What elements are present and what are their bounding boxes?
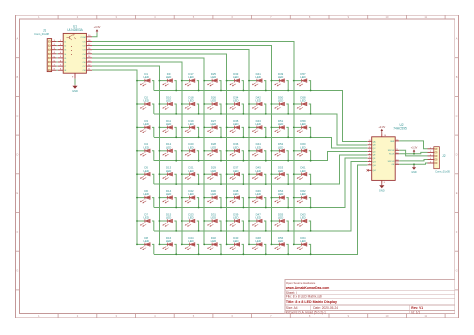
LED D57 [293,72,312,91]
svg-text:F: F [456,230,458,234]
svg-text:LED: LED [166,145,171,149]
svg-text:+3.3V: +3.3V [94,25,101,29]
svg-text:LED: LED [278,192,283,196]
LED D20 [181,142,200,161]
svg-text:13: 13 [396,163,398,165]
U2 GND pin 8 [382,180,385,184]
power +3.3V (U1) [94,25,101,32]
svg-text:LED: LED [188,75,193,79]
svg-text:SRCLR: SRCLR [388,161,395,163]
wire U2 SRCLR to J2 pin4 [399,160,427,161]
LED D22 [181,189,200,208]
svg-text:LED: LED [278,122,283,126]
IC U2 74HC595 body [372,137,396,181]
J2 pins 1-5 [428,147,438,163]
svg-text:LED: LED [255,99,260,103]
svg-text:LED: LED [233,239,238,243]
power +3.3V (RCLK pull) [411,146,418,154]
LED D49 [271,72,290,91]
svg-text:www.ArnabKumarDas.com: www.ArnabKumarDas.com [285,286,329,290]
svg-text:LED: LED [255,145,260,149]
wire U2 RCLK to J2 pin2 [399,152,427,153]
title block text [285,281,423,314]
svg-text:LED: LED [300,145,305,149]
LED D28 [203,142,222,161]
svg-text:4: 4 [369,153,370,155]
wire U2 SER to J2 pin1 [399,141,427,149]
LED D3 [136,119,154,138]
svg-text:LED: LED [278,216,283,220]
svg-text:+3.3V: +3.3V [411,146,418,149]
svg-text:LED: LED [188,192,193,196]
svg-text:J1: J1 [43,28,47,32]
svg-text:Rev: V1: Rev: V1 [411,306,423,310]
LED D56 [271,236,290,255]
svg-text:LED: LED [255,122,260,126]
svg-text:E: E [17,191,19,195]
U2 pin 9 QH' (no connect) [367,169,377,172]
LED D53 [271,166,290,185]
svg-text:GND: GND [72,89,78,93]
svg-text:3: 3 [430,154,431,156]
LED D2 [136,95,154,114]
svg-text:1: 1 [369,143,370,145]
U2 control pins SER/SRCLK/RCLK/SRCLR/OE [388,139,400,166]
svg-text:LED: LED [211,75,216,79]
LED D31 [203,212,222,231]
svg-text:LED: LED [255,169,260,173]
svg-text:LED: LED [166,75,171,79]
svg-text:LED: LED [188,145,193,149]
LED D1 [136,72,154,91]
LED D8 [136,236,154,255]
LED D37 [226,166,245,185]
svg-text:7: 7 [369,163,370,165]
svg-text:LED: LED [143,216,148,220]
LED D51 [271,119,290,138]
svg-text:LED: LED [300,239,305,243]
svg-text:LED: LED [300,192,305,196]
LED D14 [159,189,178,208]
LED D11 [159,119,178,138]
svg-text:LED: LED [188,169,193,173]
svg-text:Conn_01x05: Conn_01x05 [435,170,450,174]
svg-text:LED: LED [211,169,216,173]
svg-text:G: G [456,269,458,273]
LED D39 [226,212,245,231]
LED D34 [226,95,245,114]
svg-text:LED: LED [278,169,283,173]
svg-text:LED: LED [255,239,260,243]
svg-text:LED: LED [300,99,305,103]
U2 VCC pin 16 to +3.3V [382,133,386,137]
connector J1 Conn_01x08 body [47,39,51,72]
svg-text:1: 1 [430,147,431,149]
LED D59 [293,119,312,138]
LED D62 [293,189,312,208]
svg-text:LED: LED [211,99,216,103]
LED D27 [203,119,222,138]
svg-text:LED: LED [211,145,216,149]
svg-text:12: 12 [396,152,398,154]
LED D18 [181,95,200,114]
wire U1 COM to +3.3V [92,33,97,37]
svg-text:F: F [17,230,19,234]
svg-text:LED: LED [233,192,238,196]
svg-text:+3.3V: +3.3V [378,125,385,129]
LED D33 [226,72,245,91]
title block frame [285,279,455,313]
ground (U1) [72,79,78,93]
svg-text:LED: LED [300,122,305,126]
svg-text:J2: J2 [442,154,446,158]
svg-text:LED: LED [300,216,305,220]
svg-text:B: B [17,75,19,79]
svg-text:LED: LED [233,169,238,173]
svg-text:14: 14 [396,139,398,141]
svg-text:LED: LED [278,145,283,149]
svg-text:5: 5 [430,162,431,164]
LED D6 [136,189,154,208]
svg-text:15: 15 [369,140,371,142]
LED D17 [181,72,200,91]
svg-text:KiCad E.D.A. kicad (5.0.2)-1: KiCad E.D.A. kicad (5.0.2)-1 [286,310,326,314]
svg-text:Id: 1/1: Id: 1/1 [411,310,420,314]
svg-text:LED: LED [211,122,216,126]
svg-text:File: 8 x 8 LED Matrix.sch: File: 8 x 8 LED Matrix.sch [286,295,323,299]
LED D7 [136,212,154,231]
svg-text:LED: LED [143,122,148,126]
svg-text:LED: LED [300,169,305,173]
LED D19 [181,119,200,138]
svg-text:4: 4 [430,158,431,160]
svg-text:Date: 2020-05-24: Date: 2020-05-24 [313,306,338,310]
LED D23 [181,212,200,231]
J1 pins 1-8 [48,40,58,71]
svg-text:LED: LED [188,216,193,220]
svg-text:LED: LED [278,75,283,79]
LED D29 [203,166,222,185]
svg-text:B: B [456,75,458,79]
LED D42 [248,95,267,114]
svg-text:LED: LED [233,75,238,79]
svg-text:3: 3 [369,150,370,152]
svg-text:COM: COM [80,37,85,39]
U1 GND pin 9 [72,73,75,79]
svg-text:LED: LED [255,192,260,196]
svg-text:C: C [456,114,458,118]
svg-text:ULN2803A: ULN2803A [67,28,83,32]
LED D40 [226,236,245,255]
svg-text:LED: LED [233,122,238,126]
LED D4 [136,142,154,161]
LED D26 [203,95,222,114]
LED D21 [181,166,200,185]
svg-text:LED: LED [143,99,148,103]
svg-text:8: 8 [384,182,385,184]
svg-text:LED: LED [166,169,171,173]
LED D12 [159,142,178,161]
LED D48 [248,236,267,255]
svg-text:SRCLK: SRCLK [388,150,395,152]
svg-text:2: 2 [369,147,370,149]
svg-text:LED: LED [188,99,193,103]
svg-text:5: 5 [369,157,370,159]
svg-text:SER: SER [390,141,395,143]
svg-text:LED: LED [211,192,216,196]
wire U2 SRCLK to J2 pin3 [399,150,427,156]
svg-text:C: C [16,114,18,118]
svg-text:LED: LED [166,239,171,243]
svg-text:11: 11 [396,149,398,151]
svg-text:Size: A4: Size: A4 [286,306,298,310]
svg-text:LED: LED [278,99,283,103]
svg-text:A: A [456,36,458,40]
svg-text:LED: LED [188,239,193,243]
svg-text:LED: LED [143,169,148,173]
svg-text:LED: LED [143,145,148,149]
svg-text:74HC595: 74HC595 [393,127,407,131]
svg-text:E: E [456,191,458,195]
svg-text:D: D [456,153,458,157]
svg-text:RCLK: RCLK [389,154,395,156]
svg-text:Conn_01x08: Conn_01x08 [34,32,49,36]
svg-text:LED: LED [233,145,238,149]
U1 COM pin 10 [80,35,92,39]
ground (U2 bottom) [379,184,385,193]
svg-text:LED: LED [166,216,171,220]
svg-text:LED: LED [233,216,238,220]
LED D47 [248,212,267,231]
svg-text:GND: GND [379,188,385,192]
svg-text:Open Source Hardware: Open Source Hardware [286,281,316,285]
svg-text:LED: LED [278,239,283,243]
wires U1 outputs feeding matrix columns [92,42,294,245]
LED D58 [293,95,312,114]
LED D35 [226,119,245,138]
svg-text:LED: LED [143,75,148,79]
LED D55 [271,212,290,231]
svg-text:2: 2 [430,151,431,153]
U1 input/output pins with numbers [58,40,92,72]
LED D63 [293,212,312,231]
LED D15 [159,212,178,231]
LED D10 [159,95,178,114]
svg-text:Title: 8 x 8 LED Matrix Displa: Title: 8 x 8 LED Matrix Display [286,300,337,304]
wire U2 OE to J2 pin5 [399,163,427,164]
LED D5 [136,166,154,185]
LED D41 [248,72,267,91]
svg-text:9: 9 [72,77,74,79]
svg-text:6: 6 [369,160,370,162]
IC U1 ULN2803A body [63,33,86,73]
LED D36 [226,142,245,161]
LED D45 [248,166,267,185]
LED D44 [248,142,267,161]
LED D32 [203,236,222,255]
LED D50 [271,95,290,114]
svg-text:LED: LED [143,239,148,243]
svg-text:LED: LED [255,75,260,79]
LED D30 [203,189,222,208]
svg-text:G: G [16,269,18,273]
svg-text:10: 10 [396,159,398,161]
LED D16 [159,236,178,255]
svg-text:16: 16 [384,135,386,137]
svg-text:LED: LED [211,216,216,220]
ground (OE pulldown) [411,163,417,174]
svg-text:LED: LED [166,192,171,196]
LED D24 [181,236,200,255]
svg-text:LED: LED [143,192,148,196]
svg-text:LED: LED [233,99,238,103]
LED D13 [159,166,178,185]
LED D54 [271,189,290,208]
svg-text:LED: LED [300,75,305,79]
LED D60 [293,142,312,161]
LED D25 [203,72,222,91]
svg-text:LED: LED [166,122,171,126]
svg-text:LED: LED [255,216,260,220]
power +3.3V (U2 top) [378,125,385,134]
LED D46 [248,189,267,208]
svg-text:QG: QG [373,161,377,163]
LED D38 [226,189,245,208]
connector J2 Conn_01x05 body [434,147,440,169]
svg-text:LED: LED [166,99,171,103]
LED D52 [271,142,290,161]
U2 output pins QA-QH [368,140,376,167]
LED D9 [159,72,178,91]
svg-text:LED: LED [188,122,193,126]
svg-text:LED: LED [211,239,216,243]
LED D64 [293,236,312,255]
svg-text:GND: GND [411,171,417,174]
LED D61 [293,166,312,185]
svg-text:A: A [17,36,19,40]
wires matrix row rails to U2 [154,91,368,255]
svg-text:D: D [16,153,18,157]
LED D43 [248,119,267,138]
